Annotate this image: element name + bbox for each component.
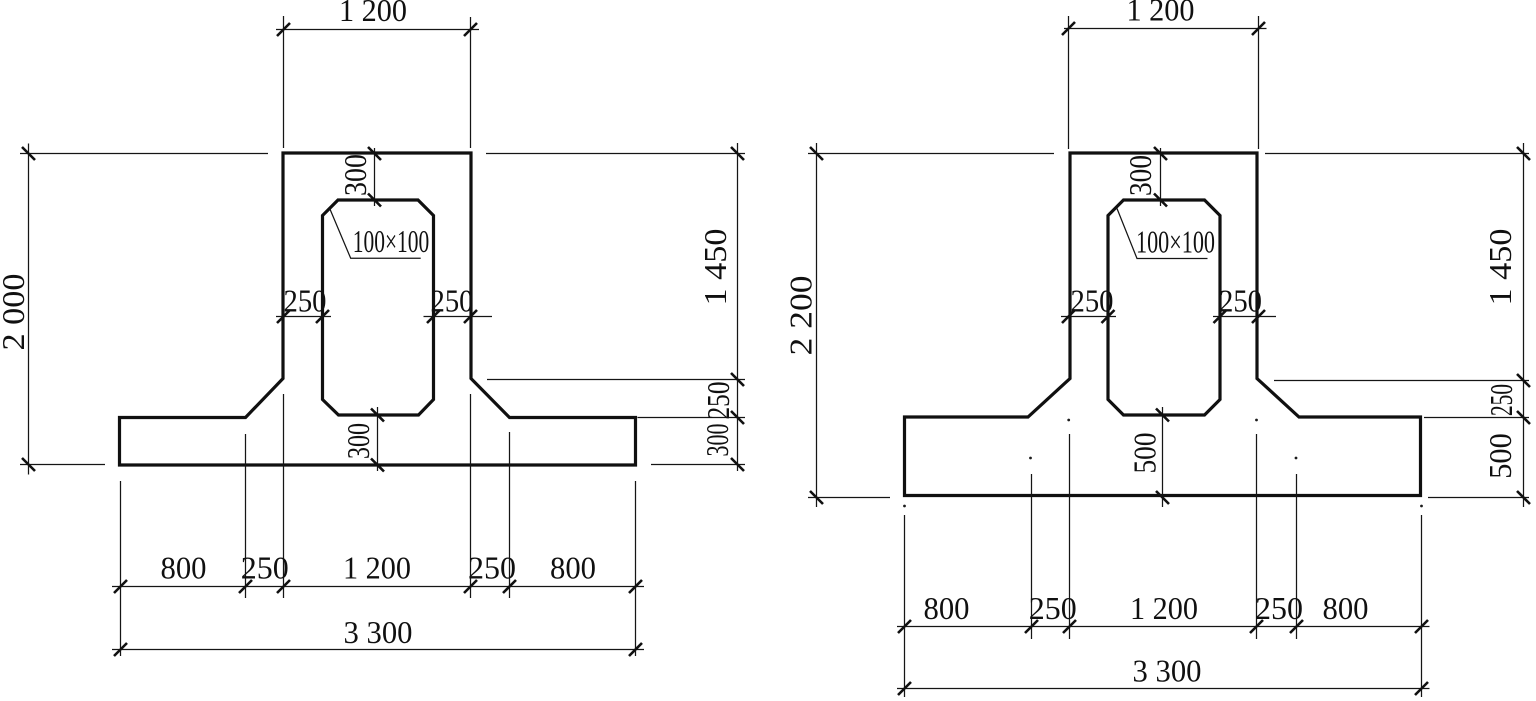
svg-text:1 450: 1 450	[1482, 229, 1518, 306]
dimension 250 right wall (left figure)	[424, 283, 493, 324]
svg-text:250: 250	[1071, 283, 1114, 319]
svg-text:1 200: 1 200	[1130, 590, 1198, 626]
dimension 300 top of cup (left figure)	[337, 147, 381, 207]
svg-text:1 200: 1 200	[343, 550, 411, 586]
svg-text:250: 250	[468, 550, 516, 586]
dimension 250 left wall (right figure)	[1061, 283, 1116, 324]
svg-text:250: 250	[241, 550, 289, 586]
dimension row 800/250/1 200/250/800 bottom (left figure)	[112, 394, 644, 656]
svg-text:250: 250	[1029, 590, 1077, 626]
svg-text:1 200: 1 200	[339, 0, 407, 28]
svg-text:3 300: 3 300	[1133, 653, 1202, 689]
svg-text:250: 250	[431, 283, 474, 319]
svg-text:300: 300	[337, 154, 373, 196]
svg-text:300: 300	[1122, 155, 1158, 196]
footing outline (right figure)	[905, 153, 1421, 496]
svg-text:250: 250	[284, 283, 327, 319]
svg-text:300: 300	[699, 424, 735, 457]
svg-text:250: 250	[1483, 384, 1519, 416]
svg-text:1 450: 1 450	[697, 229, 733, 306]
svg-text:800: 800	[161, 550, 207, 586]
dimension 250 right wall (right figure)	[1213, 283, 1276, 324]
footing outline (left figure)	[120, 153, 636, 465]
svg-text:2 000: 2 000	[0, 274, 31, 351]
dimension 250 left wall (left figure)	[276, 283, 331, 324]
svg-text:250: 250	[1255, 590, 1303, 626]
dimension 3 300 bottom (left figure)	[112, 614, 644, 656]
svg-text:250: 250	[1219, 283, 1262, 319]
dimension 1 200 top (left figure)	[276, 0, 479, 148]
dimension 300 below cup (left figure)	[340, 407, 384, 472]
svg-text:100×100: 100×100	[1136, 224, 1215, 260]
dimension row 800/250/1 200/250/800 bottom (right figure)	[897, 434, 1430, 697]
socket cup opening (left figure)	[323, 200, 434, 415]
dimension 500 below cup (right figure)	[1127, 407, 1169, 507]
leader 100x100 chamfer (right figure)	[1117, 209, 1215, 260]
svg-text:3 300: 3 300	[344, 614, 413, 650]
svg-text:100×100: 100×100	[353, 223, 430, 259]
dimension stack 1 450 / 250 / 500 right (right figure)	[1265, 143, 1530, 507]
svg-text:250: 250	[700, 382, 736, 420]
dimension 3 300 bottom (right figure)	[897, 653, 1430, 696]
dimension 2 000 left (left figure)	[0, 144, 268, 475]
dimension 1 200 top (right figure)	[1062, 0, 1267, 149]
svg-text:300: 300	[340, 423, 376, 459]
svg-text:500: 500	[1482, 433, 1518, 479]
svg-text:800: 800	[924, 590, 970, 626]
extension dot marks (right figure)	[903, 419, 1423, 508]
dimension stack 1 450 / 250 / 300 right (left figure)	[486, 143, 745, 471]
dimension 2 200 left (right figure)	[783, 143, 1054, 507]
svg-text:800: 800	[550, 550, 596, 586]
socket cup opening (right figure)	[1108, 200, 1220, 415]
svg-text:1 200: 1 200	[1127, 0, 1195, 28]
svg-text:500: 500	[1127, 433, 1163, 474]
dimension 300 top of cup (right figure)	[1122, 147, 1167, 207]
svg-text:800: 800	[1323, 590, 1369, 626]
svg-text:2 200: 2 200	[783, 276, 819, 356]
leader 100x100 chamfer (left figure)	[330, 208, 430, 259]
